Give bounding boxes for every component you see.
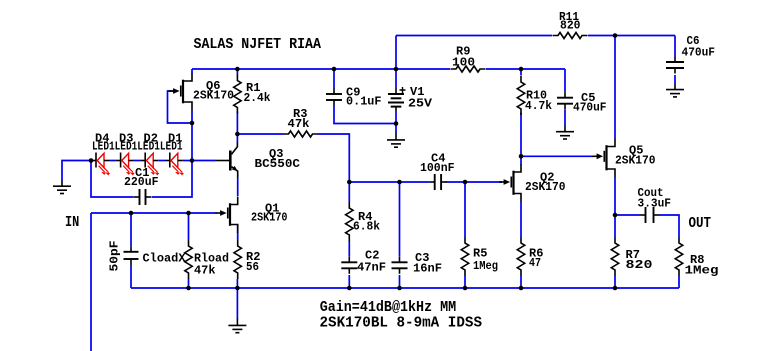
node junction R3/R4/C4 (347, 180, 352, 185)
node junction V1 plus (394, 67, 399, 72)
svg-text:47nF: 47nF (357, 260, 386, 274)
resistor R5 (461, 237, 468, 276)
resistor R6 (517, 237, 524, 276)
resistor R7 (611, 237, 618, 276)
svg-text:2SK170: 2SK170 (193, 89, 234, 103)
wire R8 bottom lead (678, 276, 680, 288)
node junction V1 minus (394, 121, 399, 126)
wire Q6 gate to source loop (168, 91, 193, 123)
wire mid rail left (192, 68, 450, 70)
node junction Rload top (186, 211, 191, 216)
capacitor C4 (429, 181, 435, 183)
node junction C3 top (397, 180, 402, 185)
diode D3 LED1 (116, 153, 134, 175)
node junction top rail / Q5 drain (613, 33, 618, 38)
wire R4 to C2 (348, 241, 350, 257)
wire R10 top lead (520, 69, 522, 76)
node junction Q2 drain (519, 154, 524, 159)
svg-text:2SK170: 2SK170 (251, 211, 288, 225)
battery V1 plus sign (400, 87, 406, 93)
wire C6 top lead (674, 36, 676, 57)
node junction R5 bottom (463, 286, 468, 291)
capacitor Cout (640, 214, 646, 216)
node junction Q6 source (190, 121, 195, 126)
svg-text:56: 56 (246, 260, 259, 274)
svg-text:SALAS NJFET RIAA: SALAS NJFET RIAA (194, 36, 322, 53)
wire IN vertical to edge (90, 213, 92, 351)
wire R1 top lead (236, 69, 238, 75)
wire V1 bottom lead (395, 111, 397, 124)
wire Q2 drain lead (520, 156, 522, 164)
svg-text:100: 100 (452, 56, 475, 70)
diode D1 LED1 (165, 153, 183, 175)
wire V+ top rail right of R11 (588, 35, 675, 37)
wire C5 top lead (564, 69, 566, 92)
svg-text:2.4k: 2.4k (244, 91, 271, 105)
wire R5 bottom lead (464, 276, 466, 288)
wire Rload top lead (188, 213, 190, 240)
wire Cload bottom lead (130, 265, 132, 288)
wire Rload bottom lead (188, 279, 190, 288)
wire IN to Q1 gate (91, 212, 217, 214)
wire Q3 base lead (192, 160, 216, 162)
capacitor C5 (564, 92, 566, 98)
capacitor CloadX 50pF (130, 246, 132, 252)
capacitor C6 (674, 57, 676, 63)
node junction R10 top (519, 67, 524, 72)
transistor Q5 2SK170 (592, 139, 615, 178)
wire Q5 source to Cout node (614, 178, 616, 216)
wire Cout to R8 (659, 215, 679, 237)
wire mid rail right of R9 (486, 68, 565, 70)
transistor Q1 2SK170 (216, 197, 238, 234)
node junction LED string left (89, 158, 94, 163)
wire R5 top lead (464, 182, 466, 237)
svg-text:16nF: 16nF (413, 261, 442, 275)
transistor Q2 2SK170 (499, 164, 521, 202)
transistor Q3 BC550C (216, 143, 238, 178)
resistor R3 (283, 131, 318, 137)
wire Q3 emitter to Q1 drain (237, 178, 239, 197)
node junction R7 bottom (613, 286, 618, 291)
wire Q3 collector lead (236, 134, 238, 143)
svg-text:470uF: 470uF (682, 46, 716, 60)
wire Q1 source to R2 (237, 225, 239, 240)
wire C1 left lead (91, 161, 134, 198)
wire R2 node to ground (236, 288, 238, 319)
wire Cload top lead (130, 213, 132, 246)
node junction C9 top (332, 67, 337, 72)
resistor R1 (234, 75, 241, 114)
svg-text:0.1uF: 0.1uF (346, 95, 382, 109)
wire R10 bottom lead (520, 113, 522, 157)
resistor R9 (451, 66, 486, 72)
capacitor C1 (134, 196, 140, 198)
svg-text:25V: 25V (408, 97, 433, 111)
resistor Rload (185, 240, 192, 279)
svg-text:6.8k: 6.8k (353, 220, 380, 234)
node junction LED string right / Q3 base (190, 158, 195, 163)
capacitor C9 (333, 89, 335, 95)
svg-text:4.7k: 4.7k (525, 99, 552, 113)
wire R6 bottom lead (520, 276, 522, 288)
ground near LEDs (53, 185, 71, 187)
node junction R2 bottom / ground (235, 286, 240, 291)
wire Q5 drain to top rail (614, 36, 616, 139)
resistor R8 (675, 237, 682, 276)
wire V+ top rail left of R11 (396, 35, 552, 37)
wire Q6 drain lead (191, 69, 193, 74)
svg-text:47k: 47k (288, 117, 310, 131)
svg-text:1Meg: 1Meg (685, 263, 719, 277)
svg-text:LED1LED1LED1LED1: LED1LED1LED1LED1 (92, 139, 183, 153)
svg-text:47k: 47k (194, 263, 216, 277)
node junction Rload bottom (186, 286, 191, 291)
svg-text:100nF: 100nF (420, 161, 455, 175)
node junction Q5 source / Cout / R7 (613, 213, 618, 218)
wire bottom ground rail (131, 287, 679, 289)
node junction C3 bottom (397, 286, 402, 291)
svg-text:470uF: 470uF (573, 101, 607, 115)
wire C1 right lead (152, 161, 193, 198)
svg-text:50pF: 50pF (108, 241, 122, 272)
battery V1 25V (388, 88, 404, 111)
wire V1 ground lead (395, 124, 397, 133)
wire LED D3-D2 gap (134, 160, 141, 162)
wire R1 bottom lead (236, 112, 238, 135)
wire Q2 drain to Q5 gate (521, 155, 593, 157)
svg-text:OUT: OUT (689, 215, 712, 232)
svg-text:2SK170: 2SK170 (615, 154, 656, 168)
wire C9 bottom to V1 minus (334, 106, 396, 124)
wire Cout left lead (615, 214, 640, 216)
wire Q6 source down to LED node (191, 111, 193, 161)
svg-text:220uF: 220uF (124, 175, 159, 189)
node junction R6 bottom (519, 286, 524, 291)
wire R7 top lead (614, 215, 616, 237)
wire LED D2-D1 gap (158, 160, 165, 162)
wire R3 right lead down (318, 134, 349, 182)
diode D4 LED1 (92, 153, 110, 175)
resistor R10 (517, 76, 524, 115)
wire C6 to ground (674, 75, 676, 84)
wire R3 left lead (237, 133, 283, 135)
ground V1 (387, 139, 405, 141)
wire C4 to Q2 gate (446, 181, 502, 183)
wire LED D1 to node (183, 160, 192, 162)
wire R4 node to C4 (349, 181, 429, 183)
svg-text:BC550C: BC550C (255, 157, 301, 171)
wire C9 top lead (333, 69, 335, 89)
node junction Cload top (129, 211, 134, 216)
svg-text:1Meg: 1Meg (473, 259, 498, 273)
wire LED D4-D3 gap (109, 160, 116, 162)
svg-text:47: 47 (529, 256, 541, 270)
wire C3 bottom lead (399, 275, 401, 288)
wire C2 bottom lead (348, 275, 350, 288)
wire LED anode node to ground (62, 161, 91, 181)
wire V1 top lead (395, 69, 397, 88)
wire Q2 source to R6 (520, 202, 522, 237)
node junction R1 top (235, 67, 240, 72)
resistor R2 (234, 240, 241, 279)
node junction C2 bottom (347, 286, 352, 291)
capacitor C2 (348, 257, 350, 263)
svg-text:2SK170BL 8-9mA IDSS: 2SK170BL 8-9mA IDSS (320, 314, 483, 331)
node junction R1/R3/Q3 (235, 132, 240, 137)
ground bottom R2 (228, 324, 246, 326)
wire V1 plus riser (395, 36, 397, 70)
wire C5 to ground (564, 109, 566, 125)
capacitor C3 (399, 257, 401, 263)
wire C3 top lead (399, 182, 401, 257)
svg-text:IN: IN (65, 214, 79, 231)
svg-text:3.3uF: 3.3uF (638, 197, 672, 211)
svg-text:820: 820 (626, 258, 653, 272)
wire R2 bottom lead (236, 279, 238, 288)
resistor R11 (553, 33, 588, 39)
node junction C4/Q2 gate/R5 (463, 180, 468, 185)
diode D2 LED1 (141, 153, 159, 175)
transistor Q6 2SK170 (169, 73, 192, 111)
resistor R4 (346, 202, 353, 241)
svg-text:CloadX: CloadX (143, 251, 187, 265)
wire R7 bottom lead (614, 276, 616, 288)
ground C6 (666, 89, 684, 91)
wire R4 top lead (348, 182, 350, 202)
svg-text:2SK170: 2SK170 (525, 180, 566, 194)
svg-text:820: 820 (560, 19, 581, 33)
ground C5 (556, 131, 574, 133)
